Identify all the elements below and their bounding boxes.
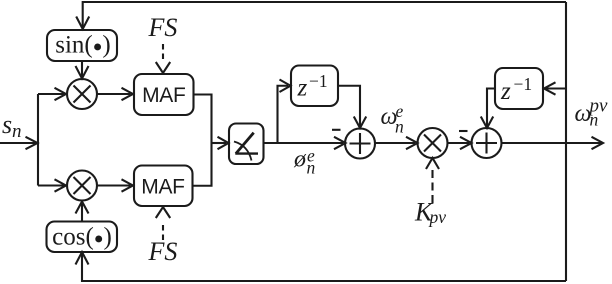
minus sign at adder A2 [459, 130, 468, 132]
wire: bottom feedback from output node to cos block [76, 252, 567, 281]
wire: FS dashed arrow into MAF1 [156, 44, 170, 73]
node: input s_n [0, 137, 38, 149]
wire: top feedback from output node to sin block [76, 2, 566, 29]
svg-text:MAF: MAF [142, 84, 185, 107]
wire: adder A1 to multiplier X3 [375, 137, 418, 149]
svg-text:FS: FS [148, 13, 178, 42]
wire: input branch vertical [37, 94, 39, 186]
wire: branch to lower multiplier [38, 179, 66, 191]
svg-text:z: z [297, 75, 308, 102]
label phi_n^e [293, 146, 316, 178]
delay block z1 [291, 66, 338, 107]
wire: multiplier X1 to MAF1 [97, 88, 133, 100]
svg-text:n: n [395, 117, 404, 137]
wire: branch to upper multiplier [38, 88, 66, 100]
svg-text:−1: −1 [514, 74, 533, 94]
svg-text:−1: −1 [309, 71, 328, 91]
svg-text:z: z [500, 78, 511, 105]
wire: z2 output to adder A2 top [481, 89, 495, 129]
label z^-1 (z2) [500, 74, 532, 105]
label MAF2 [141, 176, 184, 199]
svg-text:cos(●): cos(●) [52, 224, 112, 251]
multiplier X2 [67, 171, 97, 201]
svg-text:pv: pv [428, 207, 447, 227]
wire: combine node to angle block [212, 137, 229, 149]
svg-text:ø: ø [293, 147, 307, 173]
wire: z1 output to adder A1 top [338, 86, 366, 128]
wire: MAF2 output to combine node [193, 143, 212, 186]
wire: K_pv dashed arrow into multiplier X3 [426, 158, 439, 203]
label FS top [148, 13, 178, 42]
svg-text:s: s [2, 110, 12, 139]
wire: branch up to z1 [278, 80, 291, 144]
label K_pv [414, 198, 446, 228]
delay block z2 [495, 68, 543, 109]
multiplier X3 [418, 128, 448, 158]
sin block [47, 30, 117, 61]
label cos(.) [52, 224, 112, 251]
wire: multiplier X3 to adder A2 [448, 137, 472, 149]
label omega_n^e [381, 101, 405, 137]
wire: sin to upper multiplier [76, 61, 89, 79]
label FS bottom [148, 237, 178, 266]
wire: adder A2 output through node to omega_n^pv [502, 137, 604, 149]
label MAF1 [142, 84, 185, 107]
angle (phase) block U1 [229, 124, 264, 165]
minus sign at adder A1 [332, 129, 341, 131]
cos block [47, 222, 118, 253]
MAF2 block [134, 166, 193, 207]
MAF1 block [134, 74, 194, 115]
multiplier X1 [67, 79, 97, 109]
label z^-1 (z1) [297, 71, 328, 102]
svg-text:n: n [12, 121, 22, 142]
label s_n [2, 110, 22, 142]
wire: cos to lower multiplier [76, 202, 89, 222]
svg-text:MAF: MAF [141, 176, 184, 199]
wire: angle block to adder A1 [264, 137, 346, 149]
label sin(.) [55, 32, 111, 59]
svg-text:n: n [590, 110, 599, 130]
wire: right vertical feedback bus [565, 2, 567, 281]
adder A1 [345, 129, 375, 159]
svg-text:FS: FS [148, 237, 178, 266]
wire: MAF1 output to combine node [194, 95, 212, 144]
svg-text:n: n [307, 158, 316, 178]
adder A2 [472, 128, 502, 158]
wire: FS dashed arrow into MAF2 [156, 207, 170, 240]
wire: multiplier X2 to MAF2 [97, 179, 133, 191]
wire: feedback bus into z2 [544, 82, 566, 94]
svg-text:sin(●): sin(●) [55, 32, 111, 59]
label omega_n^pv [575, 96, 609, 130]
